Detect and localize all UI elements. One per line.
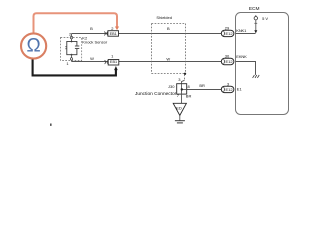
svg-text:BR: BR [186,93,192,98]
connector E12 pin 30 [221,58,234,64]
svg-text:Junction Connector: Junction Connector [135,91,177,97]
shield dashed box [152,24,186,74]
ohmmeter probe wire (black) [33,59,116,76]
svg-text:30: 30 [225,54,230,59]
ohmmeter circle [21,33,46,58]
svg-text:EB1: EB1 [110,60,117,64]
ground point triangle ED [173,103,186,115]
svg-text:Shielded: Shielded [156,15,172,20]
svg-text:29: 29 [225,26,230,31]
wire BR (junction to ECM) [187,89,222,91]
chassis ground (inside ECM) [253,75,260,78]
ohmmeter probe wire (orange) [34,13,118,33]
svg-text:5 V: 5 V [262,16,268,21]
ground symbol [179,115,181,120]
connector E12 pin 3 [221,86,234,92]
svg-text:Knock Sensor: Knock Sensor [82,39,108,44]
knock sensor pin 1 lead [71,54,73,56]
svg-text:B: B [90,26,93,31]
knock sensor piezo ticks (left) [65,46,67,48]
knock sensor pin 2 lead [71,34,73,37]
svg-text:W: W [90,56,94,61]
connector E12 pin 29 [221,30,234,36]
ECM box [236,13,289,115]
shield drain node [184,73,186,75]
svg-text:BR: BR [199,83,205,88]
knock sensor capacitor plates (right) [75,45,79,47]
svg-text:KNK1: KNK1 [236,28,247,33]
5V supply symbol [254,17,257,20]
junction connector J30 box [177,84,187,94]
svg-text:E12: E12 [225,87,233,92]
svg-text:J30: J30 [168,84,175,89]
svg-text:EB1: EB1 [110,32,117,36]
knock sensor element box [67,41,77,54]
svg-text:ED: ED [176,106,182,111]
junction to ground lead [181,94,183,103]
stray mark [50,124,52,126]
svg-text:E12: E12 [225,31,233,36]
connector halves )( bottom [105,60,109,64]
wire W (bottom) [72,61,222,63]
shield drain dashed lead [184,74,186,80]
junction connector J30 entry stub [182,80,185,83]
ohmmeter probe arrowhead (black) [114,66,118,70]
knock sensor K2 dashed case [61,38,82,61]
BKNK internal wire [236,62,256,75]
ohmmeter probe arrowhead (orange) [115,27,119,31]
svg-text:B: B [167,26,170,31]
svg-text:Ω: Ω [26,36,40,57]
junction connector internal bus [181,84,183,94]
svg-text:E12: E12 [225,59,233,64]
svg-text:W: W [166,56,170,61]
svg-text:EKNK: EKNK [236,54,247,59]
connector halves )( top [104,32,108,36]
svg-text:ECM: ECM [249,6,260,12]
connector EB1 bottom [108,60,119,66]
connector EB1 top [108,31,119,37]
svg-text:E1: E1 [237,86,243,91]
wire B (top) [72,33,222,35]
KNK1 internal wire [236,33,256,35]
